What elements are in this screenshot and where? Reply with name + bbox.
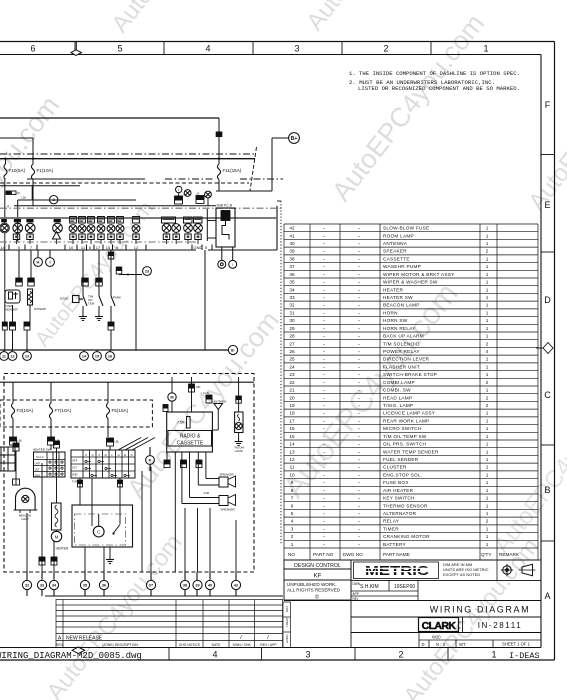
- svg-text:N : S: N : S: [436, 642, 446, 647]
- svg-text:OFF: OFF: [72, 459, 78, 463]
- svg-text:1: 1: [486, 503, 489, 508]
- svg-text:PART NO: PART NO: [313, 552, 334, 557]
- svg-text:UNPUBLISHED WORK,: UNPUBLISHED WORK,: [287, 582, 337, 587]
- svg-text:H: H: [118, 453, 120, 457]
- svg-text:-: -: [323, 295, 325, 300]
- svg-text:F10(5A): F10(5A): [9, 168, 26, 173]
- svg-text:-: -: [323, 372, 325, 377]
- svg-text:S.H.KIM: S.H.KIM: [360, 584, 379, 590]
- svg-text:/: /: [240, 635, 242, 641]
- svg-text:1: 1: [486, 434, 489, 439]
- svg-text:HEATER SW: HEATER SW: [383, 295, 413, 300]
- svg-text:1: 1: [486, 388, 489, 393]
- connector CN k: [10, 437, 17, 441]
- svg-text:F7(10A): F7(10A): [55, 408, 72, 413]
- svg-text:FLASHER UNIT: FLASHER UNIT: [383, 364, 420, 369]
- sheet inner border: [0, 54, 541, 56]
- svg-text:I-DEAS: I-DEAS: [509, 651, 540, 661]
- svg-text:P: P: [149, 457, 152, 462]
- svg-text:-: -: [323, 526, 325, 531]
- svg-text:MICRO SWITCH: MICRO SWITCH: [383, 426, 421, 431]
- node 39: [193, 580, 202, 589]
- svg-text:PARK: PARK: [113, 296, 121, 300]
- node 2: [50, 196, 58, 204]
- svg-text:25: 25: [289, 357, 295, 362]
- svg-text:14: 14: [0, 245, 5, 250]
- wire bottom bus: [26, 590, 28, 596]
- svg-text:1: 1: [486, 256, 489, 261]
- pilot lamp FUEL: [108, 217, 115, 224]
- svg-text:-: -: [358, 310, 360, 315]
- wire option dashed: [0, 182, 249, 184]
- svg-text:WT: WT: [459, 642, 466, 647]
- svg-text:-: -: [323, 310, 325, 315]
- svg-text:-: -: [323, 326, 325, 331]
- svg-text:SPEAKER: SPEAKER: [220, 473, 235, 477]
- svg-text:RADIO &: RADIO &: [180, 434, 201, 440]
- svg-text:-: -: [358, 488, 360, 493]
- svg-text:L: L: [178, 188, 180, 192]
- svg-text:WIPER & WASHER SW: WIPER & WASHER SW: [383, 280, 438, 285]
- pilot lamp CHG: [88, 217, 95, 224]
- junction wire: [119, 274, 142, 276]
- bottom fold mark diamond: [72, 647, 85, 654]
- svg-text:HEAD LAMP: HEAD LAMP: [383, 395, 412, 400]
- svg-text:C: C: [544, 390, 551, 400]
- svg-text:23: 23: [289, 372, 295, 377]
- svg-text:GND: GND: [194, 245, 203, 250]
- wiper switch contact: [114, 525, 121, 534]
- svg-text:11: 11: [81, 245, 86, 250]
- water temp sensor: [28, 289, 33, 305]
- svg-text:-: -: [358, 287, 360, 292]
- svg-text:-: -: [323, 388, 325, 393]
- wire rail by table: [280, 201, 282, 545]
- svg-text:1: 1: [486, 526, 489, 531]
- svg-text:M: M: [170, 395, 173, 399]
- svg-text:-: -: [323, 403, 325, 408]
- svg-text:2: 2: [486, 341, 489, 346]
- svg-text:KEY SWITCH: KEY SWITCH: [383, 496, 415, 501]
- svg-text:1. THE INSIDE COMPONENT OF DAS: 1. THE INSIDE COMPONENT OF DASHLINE IS O…: [349, 70, 520, 77]
- svg-text:1: 1: [486, 241, 489, 246]
- svg-text:33: 33: [289, 295, 295, 300]
- svg-text:AutoEPC4you.com: AutoEPC4you.com: [301, 0, 447, 36]
- svg-text:3: 3: [294, 44, 299, 54]
- svg-text:RELAY: RELAY: [383, 519, 400, 524]
- svg-text:2ND: 2ND: [72, 473, 77, 477]
- svg-text:DIRECTION LEVER: DIRECTION LEVER: [383, 357, 430, 362]
- svg-text:37: 37: [149, 583, 153, 587]
- svg-text:-: -: [323, 534, 325, 539]
- direction lever diagonals: [118, 438, 141, 451]
- svg-text:L5A: L5A: [22, 196, 27, 200]
- svg-text:I: I: [49, 259, 50, 264]
- wire stubs bottom: [26, 572, 28, 581]
- wire row: [27, 178, 145, 180]
- svg-text:38: 38: [183, 583, 187, 587]
- connector CN h: [24, 322, 30, 326]
- connector CN p: [196, 460, 202, 464]
- svg-text:17: 17: [289, 418, 295, 423]
- svg-text:-: -: [323, 503, 325, 508]
- svg-text:1: 1: [486, 411, 489, 416]
- svg-text:©: ©: [315, 594, 319, 601]
- svg-text:-: -: [323, 233, 325, 238]
- node 34: [49, 580, 58, 589]
- svg-text:SPEAKER: SPEAKER: [221, 508, 236, 512]
- svg-text:-: -: [358, 442, 360, 447]
- svg-text:-: -: [323, 364, 325, 369]
- svg-text:40: 40: [289, 241, 295, 246]
- svg-text:1: 1: [486, 496, 489, 501]
- svg-text:2: 2: [486, 249, 489, 254]
- wire drop 12: [135, 250, 137, 350]
- svg-text:LBL: LBL: [18, 439, 23, 443]
- svg-text:-: -: [323, 395, 325, 400]
- svg-text:POWER RELAY: POWER RELAY: [383, 349, 420, 354]
- svg-text:34: 34: [289, 287, 295, 292]
- svg-text:42: 42: [234, 583, 238, 587]
- svg-text:KF: KF: [314, 574, 322, 580]
- svg-text:15: 15: [95, 354, 99, 358]
- svg-text:LAMP: LAMP: [235, 449, 243, 453]
- svg-text:2: 2: [383, 44, 388, 54]
- svg-text:13: 13: [25, 354, 29, 358]
- svg-text:CASSETTE: CASSETTE: [177, 441, 204, 447]
- svg-text:LAMP: LAMP: [21, 517, 29, 521]
- clark logo: [419, 618, 459, 632]
- svg-text:11: 11: [2, 354, 6, 358]
- svg-text:2: 2: [486, 403, 489, 408]
- svg-text:L: L: [111, 453, 113, 457]
- svg-text:ALTERNATOR: ALTERNATOR: [383, 511, 417, 516]
- svg-text:-: -: [323, 264, 325, 269]
- svg-text:-: -: [358, 434, 360, 439]
- svg-text:6: 6: [30, 44, 35, 54]
- svg-text:LISTED OR RECOGNIZED COMPONENT: LISTED OR RECOGNIZED COMPONENT AND BE SO…: [358, 85, 520, 92]
- svg-text:5: 5: [205, 245, 208, 250]
- radio connector left: [163, 405, 168, 409]
- connector CN j: [2, 322, 7, 326]
- svg-text:FUSE BOX: FUSE BOX: [383, 480, 409, 485]
- speaker lower: [219, 496, 228, 506]
- svg-text:/: /: [267, 635, 269, 641]
- svg-text:CLUSTER: CLUSTER: [383, 465, 407, 470]
- svg-text:Q'TY: Q'TY: [481, 552, 492, 557]
- svg-text:27: 27: [289, 341, 295, 346]
- svg-text:OIL PRS. SWITCH: OIL PRS. SWITCH: [383, 442, 426, 447]
- terminal battery feed: [218, 118, 220, 159]
- svg-text:1: 1: [486, 488, 489, 493]
- svg-text:19: 19: [289, 403, 295, 408]
- svg-text:-: -: [323, 496, 325, 501]
- svg-text:-: -: [358, 241, 360, 246]
- svg-text:2: 2: [398, 650, 403, 660]
- svg-text:NO: NO: [288, 552, 295, 557]
- svg-text:TIMER: TIMER: [383, 526, 399, 531]
- connector CN l: [48, 437, 55, 441]
- svg-text:SHEET 1 OF 1: SHEET 1 OF 1: [502, 642, 531, 647]
- svg-text:-: -: [358, 357, 360, 362]
- svg-text:1: 1: [486, 357, 489, 362]
- ground bus wire: [0, 349, 229, 351]
- svg-text:-: -: [358, 457, 360, 462]
- svg-text:31: 31: [289, 310, 295, 315]
- svg-text:-: -: [358, 519, 360, 524]
- svg-text:-: -: [358, 272, 360, 277]
- left cut table: [0, 447, 15, 471]
- node 33: [37, 580, 46, 589]
- wire radio feeds: [191, 377, 193, 412]
- fuse F1(10A): [32, 159, 34, 164]
- ground cluster b: [98, 306, 100, 313]
- svg-text:C: C: [92, 453, 94, 457]
- svg-text:DWG NO: DWG NO: [343, 552, 363, 557]
- svg-text:1: 1: [486, 303, 489, 308]
- svg-text:CHG NOTICE: CHG NOTICE: [179, 643, 201, 647]
- top fold mark diamond: [75, 42, 77, 51]
- bus dashdot cluster: [0, 207, 283, 209]
- svg-text:-: -: [323, 334, 325, 339]
- svg-text:-: -: [358, 233, 360, 238]
- svg-text:-: -: [323, 256, 325, 261]
- svg-text:T/M OIL TEMP SW: T/M OIL TEMP SW: [383, 434, 427, 439]
- oil temp switch: [99, 296, 103, 306]
- svg-text:WIRING_DIAGRAM-M2D_0085.dwg: WIRING_DIAGRAM-M2D_0085.dwg: [0, 651, 142, 661]
- svg-text:COMBI. SW: COMBI. SW: [383, 388, 411, 393]
- connector CN n: [164, 460, 170, 464]
- title: wiring diagram: [350, 601, 352, 648]
- svg-text:-: -: [358, 303, 360, 308]
- wire to B+: [216, 190, 272, 192]
- svg-text:ANTENNA: ANTENNA: [214, 400, 227, 404]
- wiper table feeds: [79, 478, 81, 505]
- svg-text:37: 37: [289, 264, 295, 269]
- svg-text:X: X: [98, 453, 100, 457]
- svg-text:AutoEPC4you.com: AutoEPC4you.com: [121, 305, 285, 503]
- ground wiper: [109, 547, 111, 556]
- svg-text:H: H: [37, 259, 40, 264]
- wire drop 17: [98, 250, 100, 296]
- svg-text:MAT: MAT: [285, 606, 289, 612]
- svg-text:-: -: [358, 256, 360, 261]
- svg-text:B: B: [544, 485, 550, 495]
- svg-text:REV / APP: REV / APP: [260, 643, 277, 647]
- fuse F11(15A): [218, 159, 220, 164]
- svg-text:9: 9: [291, 480, 294, 485]
- wire heater drops: [53, 541, 55, 572]
- wire branch left box: [0, 137, 33, 139]
- svg-text:D: D: [422, 642, 425, 647]
- svg-text:22: 22: [289, 380, 295, 385]
- svg-text:FUEL SENDER: FUEL SENDER: [383, 457, 419, 462]
- svg-text:10: 10: [69, 245, 74, 250]
- title block: metric logo: [351, 560, 541, 581]
- svg-text:-: -: [358, 341, 360, 346]
- svg-text:4: 4: [486, 349, 489, 354]
- svg-text:SENDER: SENDER: [5, 308, 18, 312]
- wire long drops: [141, 471, 143, 572]
- connector CN a: [16, 278, 23, 282]
- svg-text:-: -: [323, 272, 325, 277]
- svg-text:1: 1: [486, 442, 489, 447]
- revision table: [56, 600, 283, 648]
- fuse F7(10A): [50, 382, 52, 403]
- wire upper rail: [0, 185, 80, 187]
- cluster box: [14, 205, 216, 207]
- svg-text:14: 14: [82, 354, 87, 358]
- svg-text:7: 7: [30, 245, 33, 250]
- svg-text:HORN: HORN: [383, 310, 398, 315]
- svg-text:CRANKING MOTOR: CRANKING MOTOR: [383, 534, 430, 539]
- process strip: [283, 602, 291, 648]
- node H: [37, 250, 39, 257]
- svg-text:-: -: [358, 318, 360, 323]
- svg-text:HARD: HARD: [285, 634, 289, 643]
- svg-text:-: -: [323, 488, 325, 493]
- svg-text:ENG.STOP SOL.: ENG.STOP SOL.: [383, 472, 422, 477]
- svg-text:F3(10A): F3(10A): [17, 408, 34, 413]
- svg-text:1: 1: [486, 310, 489, 315]
- svg-text:-: -: [358, 503, 360, 508]
- svg-text:-: -: [323, 511, 325, 516]
- wire drop 11: [82, 250, 84, 296]
- svg-text:1: 1: [486, 542, 489, 547]
- svg-text:3: 3: [305, 650, 310, 660]
- svg-text:SUB P.C.B: SUB P.C.B: [217, 204, 232, 208]
- node 36: [99, 580, 108, 589]
- svg-text:-: -: [358, 542, 360, 547]
- svg-text:1: 1: [486, 480, 489, 485]
- svg-text:N: N: [131, 453, 133, 457]
- wire drop gnd5: [204, 250, 206, 350]
- svg-text:15: 15: [289, 434, 295, 439]
- svg-text:-: -: [323, 241, 325, 246]
- svg-text:1: 1: [486, 511, 489, 516]
- svg-text:6: 6: [89, 245, 92, 250]
- pilot lamp fuel: [54, 219, 61, 222]
- connector CN g: [10, 322, 16, 326]
- svg-text:2ND: 2ND: [35, 473, 41, 477]
- node P: [149, 447, 151, 456]
- top zone band numbers: [74, 42, 76, 55]
- wire drops right: [184, 508, 186, 572]
- svg-text:-: -: [358, 364, 360, 369]
- svg-text:42: 42: [289, 226, 295, 231]
- svg-text:-: -: [358, 526, 360, 531]
- svg-text:-: -: [323, 519, 325, 524]
- svg-text:-: -: [358, 496, 360, 501]
- svg-text:NEW RELEASE: NEW RELEASE: [66, 636, 103, 642]
- connector CN m: [107, 438, 114, 442]
- svg-text:5: 5: [291, 511, 294, 516]
- svg-text:C: C: [97, 530, 100, 535]
- sheet outer border: [0, 41, 555, 43]
- svg-text:1: 1: [483, 44, 488, 54]
- svg-text:F1(10A): F1(10A): [37, 168, 54, 173]
- svg-text:6: 6: [291, 503, 294, 508]
- radio top labels: [189, 384, 195, 388]
- svg-text:-: -: [323, 287, 325, 292]
- svg-text:-: -: [358, 226, 360, 231]
- wire drop 5: [18, 250, 20, 278]
- svg-text:1ST: 1ST: [35, 467, 40, 471]
- right fold mark diamond: [543, 343, 553, 354]
- svg-text:-: -: [323, 357, 325, 362]
- svg-text:1: 1: [486, 372, 489, 377]
- brake switch: [83, 296, 87, 306]
- flasher unit: [175, 196, 183, 200]
- connector CN o: [181, 460, 187, 464]
- wire fuse to table: [12, 445, 14, 452]
- svg-text:16: 16: [17, 191, 20, 195]
- wiper motor: [93, 526, 104, 537]
- connector CN e: [108, 252, 114, 256]
- signature rows: [284, 581, 541, 601]
- svg-text:12: 12: [134, 245, 139, 250]
- svg-text:1: 1: [486, 264, 489, 269]
- node I: [49, 250, 51, 257]
- connector CN d: [96, 278, 103, 282]
- svg-text:40: 40: [208, 583, 212, 587]
- svg-text:CASSETTE: CASSETTE: [383, 256, 410, 261]
- svg-text:OFF: OFF: [35, 461, 41, 465]
- pilot lamp oil: [27, 219, 34, 222]
- svg-text:LBL: LBL: [115, 440, 120, 444]
- illumination lamp pair: [162, 224, 171, 233]
- svg-text:LBL: LBL: [196, 385, 201, 389]
- svg-text:AutoEPC4you.com: AutoEPC4you.com: [523, 39, 567, 215]
- connector CN i: [108, 322, 114, 326]
- node 35: [80, 580, 89, 589]
- svg-text:E/SOL: E/SOL: [60, 297, 69, 301]
- relay box small: [196, 196, 204, 200]
- node output a: [218, 260, 226, 268]
- sheet row: [419, 633, 541, 648]
- svg-text:WIPER MOTOR & BRKT ASSY: WIPER MOTOR & BRKT ASSY: [383, 272, 455, 277]
- node M: [168, 393, 176, 401]
- svg-text:1: 1: [486, 334, 489, 339]
- radio cassette unit: [167, 412, 213, 452]
- svg-text:METRIC: METRIC: [365, 564, 429, 578]
- svg-text:DATE: DATE: [212, 643, 222, 647]
- svg-text:28: 28: [289, 334, 295, 339]
- svg-text:29: 29: [289, 326, 295, 331]
- svg-text:AIR HEATER: AIR HEATER: [383, 488, 414, 493]
- wire main feed top: [0, 117, 219, 119]
- meter lamp pair: [184, 224, 193, 233]
- svg-text:34: 34: [52, 583, 57, 587]
- heater feed connector: [54, 441, 60, 445]
- pilot lamp OIL: [79, 217, 86, 224]
- svg-text:1: 1: [486, 326, 489, 331]
- right zone band letters: [541, 154, 555, 156]
- svg-text:E: E: [124, 453, 126, 457]
- indicator lamp right: [205, 191, 212, 198]
- node 42: [231, 580, 240, 589]
- svg-text:REL: REL: [353, 597, 359, 601]
- svg-text:1: 1: [486, 295, 489, 300]
- connector CN c: [82, 278, 89, 282]
- svg-text:26: 26: [289, 349, 295, 354]
- svg-text:-: -: [323, 542, 325, 547]
- svg-text:-: -: [358, 295, 360, 300]
- option fuse box dashed: [0, 400, 152, 427]
- svg-text:W20: W20: [432, 635, 441, 640]
- svg-text:1: 1: [486, 226, 489, 231]
- svg-text:32: 32: [289, 303, 295, 308]
